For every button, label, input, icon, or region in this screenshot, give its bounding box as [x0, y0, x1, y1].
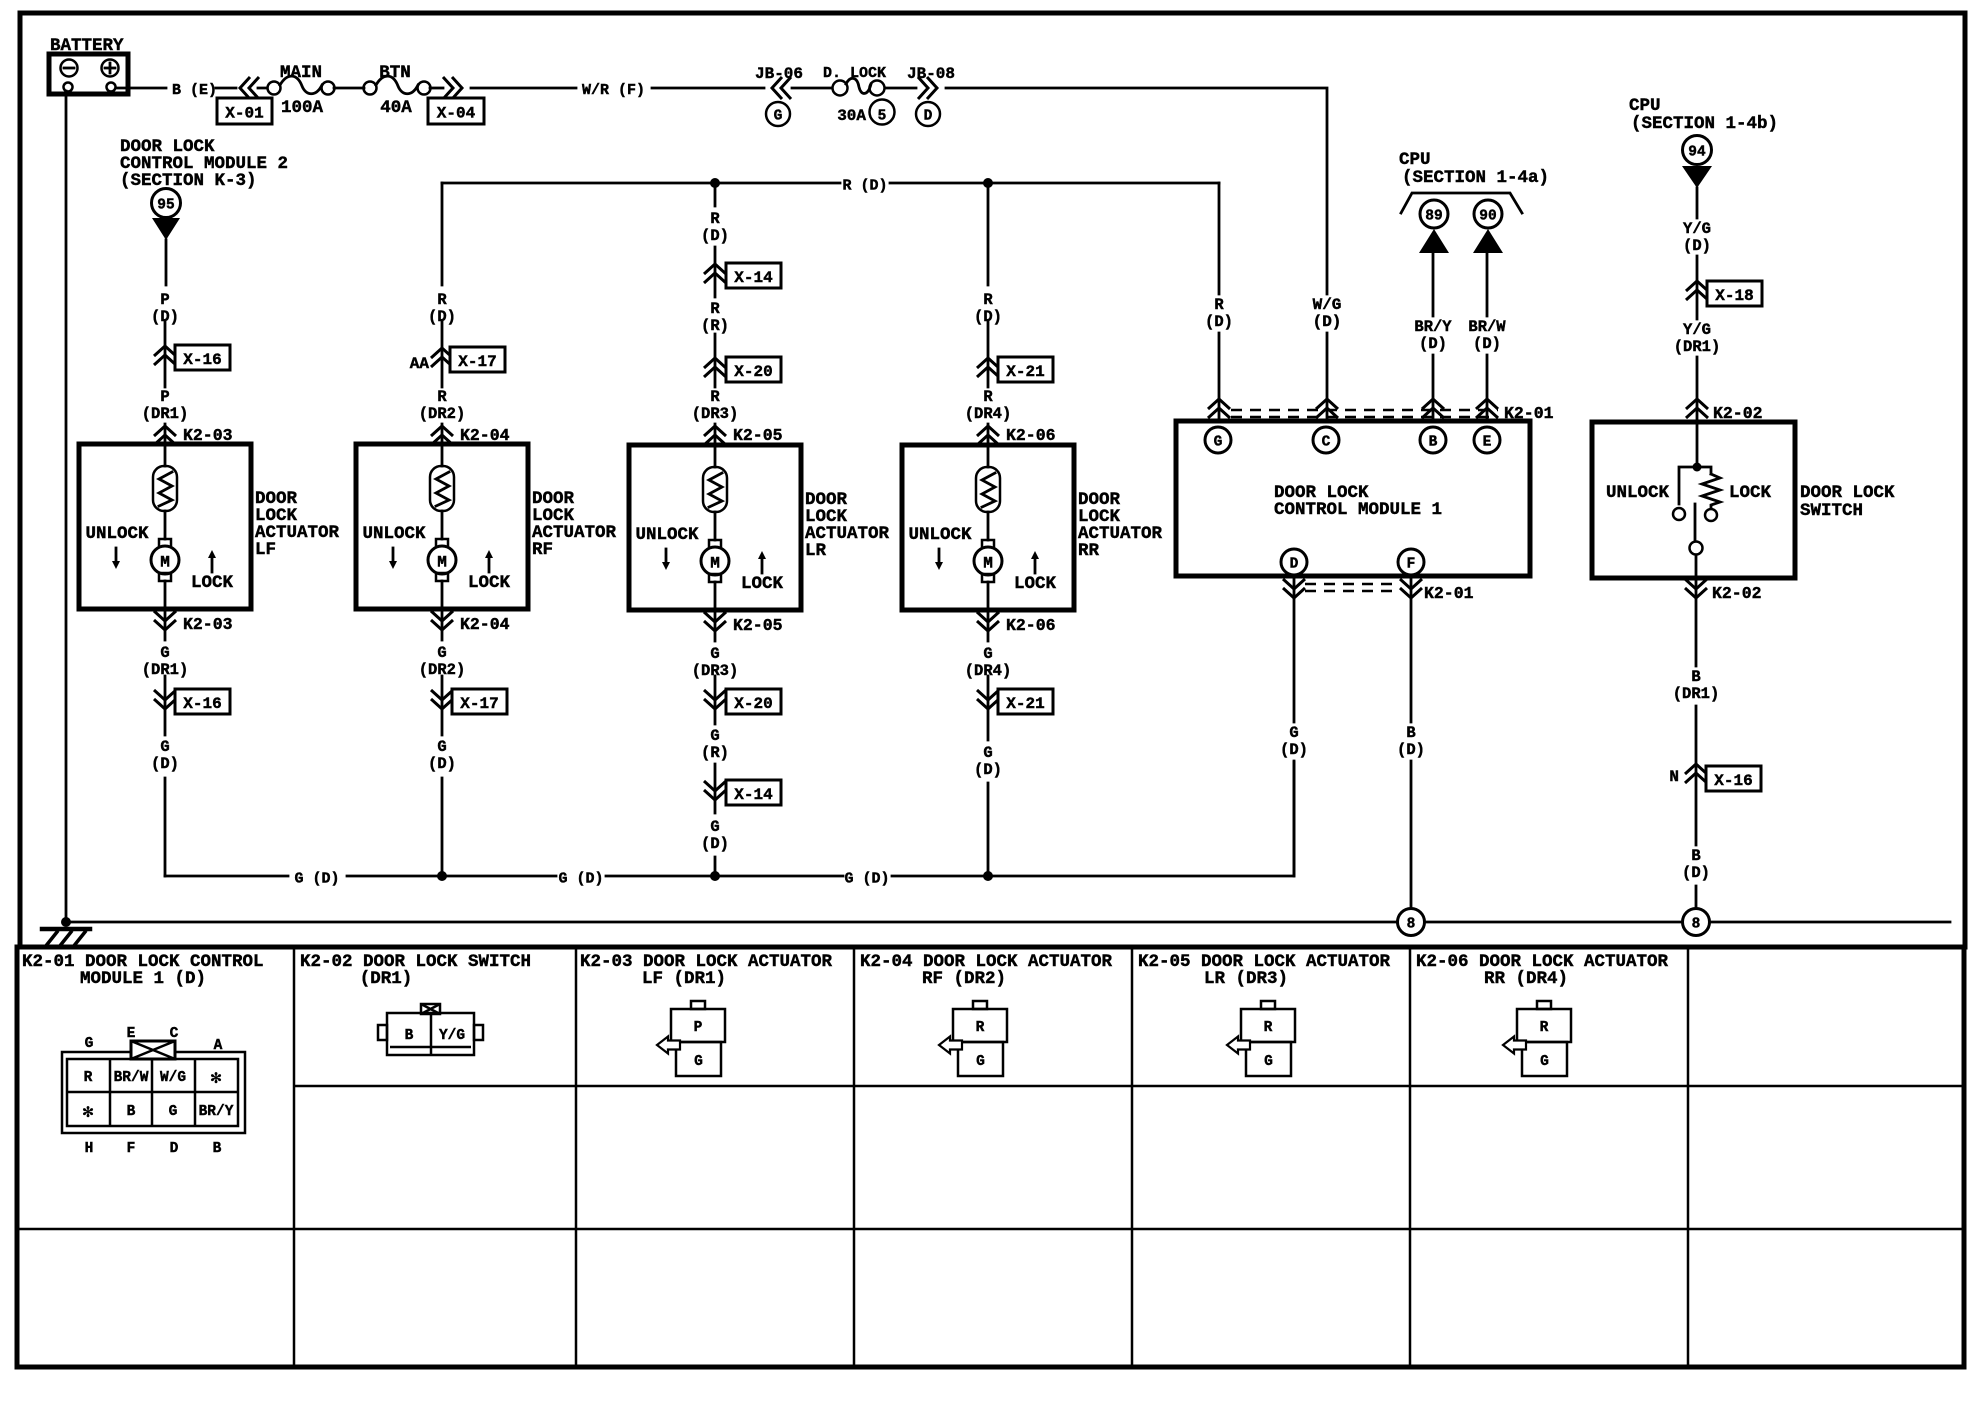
svg-text:K2-06: K2-06 [1006, 616, 1056, 635]
svg-text:Y/G: Y/G [439, 1028, 465, 1044]
svg-text:SWITCH: SWITCH [1800, 501, 1863, 521]
svg-text:X-04: X-04 [437, 105, 476, 123]
node junction G bus RF [437, 871, 447, 881]
wire label G (DR2) [419, 644, 466, 679]
wire label G (D) LF [151, 738, 179, 773]
svg-text:G: G [774, 109, 783, 125]
connector X-21 lower chevron [987, 676, 990, 876]
svg-text:K2-05: K2-05 [733, 426, 783, 445]
connector X-04 chevron [430, 87, 443, 90]
svg-text:R: R [437, 291, 447, 309]
svg-text:D: D [170, 1141, 179, 1157]
connector X-14 lower chevron [704, 781, 726, 800]
svg-text:R: R [437, 388, 447, 406]
connector X-16 chevron [154, 346, 176, 365]
svg-text:89: 89 [1425, 209, 1442, 225]
svg-text:95: 95 [157, 198, 174, 214]
svg-text:R: R [983, 388, 993, 406]
svg-text:(D): (D) [428, 308, 456, 326]
svg-text:P: P [160, 291, 169, 309]
svg-text:G: G [710, 818, 719, 836]
svg-text:(DR1): (DR1) [1673, 685, 1720, 703]
CPU (SECTION 1-4b) [1629, 96, 1778, 188]
svg-text:X-21: X-21 [1006, 695, 1044, 713]
wire label R (DR3) [692, 388, 739, 423]
svg-text:E: E [127, 1026, 136, 1042]
svg-text:(DR3): (DR3) [692, 405, 739, 423]
svg-text:✻: ✻ [211, 1069, 222, 1089]
svg-text:30A: 30A [837, 107, 866, 125]
wire label W/G (D) [1313, 296, 1342, 331]
connector pinout K2-03 [657, 1001, 725, 1076]
svg-text:UNLOCK: UNLOCK [1606, 483, 1670, 503]
battery [49, 36, 128, 94]
svg-text:B: B [1406, 724, 1415, 742]
svg-text:BR/W: BR/W [1468, 318, 1506, 336]
wire R (D) to actuator LR [714, 183, 717, 445]
svg-text:BTN: BTN [379, 63, 411, 83]
connector pinout K2-06 [1503, 1001, 1571, 1076]
svg-text:K2-05: K2-05 [733, 616, 783, 635]
node junction RR [983, 178, 993, 188]
svg-text:RR: RR [1078, 541, 1100, 561]
svg-text:W/R (F): W/R (F) [582, 82, 645, 99]
connector X-14 [726, 263, 781, 288]
connector X-17 [450, 347, 505, 372]
svg-text:DOOR LOCK: DOOR LOCK [1800, 483, 1895, 503]
svg-text:G: G [1540, 1054, 1549, 1070]
svg-text:(DR1): (DR1) [142, 405, 189, 423]
wire label B (DR1) [1673, 668, 1720, 703]
wire label R (D) LR [701, 210, 729, 245]
svg-text:G: G [710, 645, 719, 663]
switch lock contact [1705, 509, 1717, 521]
svg-text:5: 5 [878, 109, 887, 125]
svg-text:BR/Y: BR/Y [199, 1104, 234, 1120]
svg-text:R: R [976, 1020, 985, 1036]
svg-text:G: G [710, 727, 719, 745]
svg-text:R: R [1540, 1020, 1549, 1036]
svg-text:F: F [1407, 557, 1416, 573]
wire ground bus [66, 921, 1950, 924]
svg-text:N: N [1669, 768, 1679, 786]
wire G (D) bus [165, 762, 1294, 876]
pin G [1205, 427, 1231, 453]
pin B [1420, 427, 1446, 453]
svg-text:G: G [85, 1036, 94, 1052]
svg-text:G (D): G (D) [558, 871, 603, 888]
svg-text:RF: RF [532, 540, 553, 560]
wire label R (D) RR [974, 291, 1002, 326]
connector K2-05 chevron bottom [714, 610, 717, 641]
wire label B (D) pin F [1397, 724, 1425, 759]
connector K2-05 chevron top [704, 426, 726, 445]
connector X-17 lower [452, 689, 507, 714]
wire label G (D) LR [701, 818, 729, 853]
svg-text:(D): (D) [1683, 237, 1711, 255]
pin F [1398, 549, 1424, 575]
pin D [1281, 549, 1307, 575]
connector K2-01 dashed boundary top [1231, 410, 1498, 417]
table header K2-05 [1138, 952, 1391, 989]
door lock actuator RR [902, 445, 1163, 610]
svg-text:R: R [710, 388, 720, 406]
svg-text:(SECTION 1-4b): (SECTION 1-4b) [1631, 114, 1778, 134]
wire BR/Y (D) [1432, 253, 1435, 421]
wire label G (D) RF [428, 738, 456, 773]
svg-text:LOCK: LOCK [1729, 483, 1772, 503]
svg-text:G: G [983, 645, 992, 663]
svg-text:CONTROL MODULE 1: CONTROL MODULE 1 [1274, 500, 1442, 520]
svg-text:(D): (D) [151, 755, 179, 773]
connector pinout K2-05 [1227, 1001, 1295, 1076]
svg-text:G: G [437, 738, 446, 756]
svg-text:R: R [710, 210, 720, 228]
svg-text:X-20: X-20 [734, 363, 772, 381]
svg-text:(R): (R) [701, 317, 729, 335]
svg-text:R: R [1264, 1020, 1273, 1036]
svg-text:RF (DR2): RF (DR2) [922, 969, 1006, 989]
connector K2-03 chevron top [154, 426, 176, 445]
CPU (SECTION 1-4a) [1399, 150, 1549, 213]
connector pinout K2-01 [62, 1026, 245, 1157]
svg-text:MODULE 1 (D): MODULE 1 (D) [80, 969, 206, 989]
svg-text:X-20: X-20 [734, 695, 772, 713]
connector pinout K2-02 [378, 1004, 483, 1055]
connector X-20 [726, 357, 781, 382]
svg-text:8: 8 [1407, 917, 1416, 933]
svg-text:(D): (D) [1682, 864, 1710, 882]
connector X-18 chevron [1686, 281, 1708, 300]
connector X-16 right [1706, 766, 1761, 791]
svg-text:R: R [1214, 296, 1224, 314]
wire label P (DR1) [142, 388, 189, 423]
svg-text:(DR1): (DR1) [360, 969, 413, 989]
svg-text:40A: 40A [380, 98, 412, 118]
svg-text:X-21: X-21 [1006, 363, 1044, 381]
wire battery to fuse MAIN [116, 87, 267, 90]
connector X-14 lower [726, 780, 781, 805]
svg-text:G: G [1289, 724, 1298, 742]
svg-text:(D): (D) [1205, 313, 1233, 331]
wire R (D) bus [442, 182, 1219, 185]
wire Y/G (D) [1696, 188, 1699, 421]
svg-text:(D): (D) [1397, 741, 1425, 759]
svg-text:K2-06: K2-06 [1006, 426, 1056, 445]
switch lock resistor [1697, 467, 1720, 507]
svg-text:G: G [983, 744, 992, 762]
connector X-20 chevron [704, 358, 726, 377]
fuse D.LOCK 30A [823, 65, 895, 125]
wire label G (DR3) [692, 645, 739, 680]
svg-text:(D): (D) [428, 755, 456, 773]
svg-text:W/G: W/G [1313, 296, 1342, 314]
svg-text:R: R [710, 300, 720, 318]
wire R (D) to module 1 pin G [1218, 183, 1221, 421]
connector X-01 chevron [240, 77, 259, 99]
svg-text:X-16: X-16 [183, 351, 221, 369]
connector X-17 lower chevron [441, 676, 444, 876]
svg-text:C: C [1322, 435, 1331, 451]
svg-text:X-14: X-14 [734, 786, 773, 804]
ground symbol [42, 929, 90, 947]
door lock actuator LF [79, 444, 340, 609]
connector X-21 [998, 357, 1053, 382]
node junction G bus RR [983, 871, 993, 881]
svg-text:G: G [169, 1104, 178, 1120]
connector X-20 lower [726, 689, 781, 714]
svg-text:W/G: W/G [160, 1070, 186, 1086]
svg-text:X-18: X-18 [1715, 287, 1753, 305]
table header K2-01 [22, 952, 264, 989]
door lock actuator RF [356, 444, 617, 609]
svg-text:K2-01: K2-01 [1424, 584, 1474, 603]
svg-text:D: D [1290, 557, 1299, 573]
wire to fuse D.LOCK [792, 87, 831, 90]
wire W/R (F) [471, 87, 764, 90]
connector X-01 [217, 98, 272, 124]
border frame [20, 13, 1965, 947]
svg-text:BR/W: BR/W [114, 1070, 149, 1086]
svg-text:X-16: X-16 [1714, 772, 1752, 790]
connector table grid [17, 947, 1964, 1367]
svg-text:(DR2): (DR2) [419, 405, 466, 423]
wire label G (R) [701, 727, 729, 762]
wire label R (R) [701, 300, 729, 335]
svg-text:(D): (D) [974, 761, 1002, 779]
terminal 90 [1473, 200, 1503, 253]
wire label G (DR1) [142, 644, 189, 679]
fuse BTN 40A [364, 63, 431, 118]
svg-text:B: B [1429, 435, 1438, 451]
pin E [1474, 427, 1500, 453]
table header K2-02 [300, 952, 531, 989]
connector X-16 lower [175, 689, 230, 714]
svg-text:Y/G: Y/G [1683, 321, 1711, 339]
svg-text:P: P [160, 388, 169, 406]
pin C [1313, 427, 1339, 453]
svg-text:E: E [1483, 435, 1492, 451]
svg-text:X-16: X-16 [183, 695, 221, 713]
ground point 8 right [1683, 909, 1710, 936]
connector K2-04 chevron top [431, 426, 453, 445]
svg-text:K2-02: K2-02 [1712, 584, 1762, 603]
svg-text:G: G [437, 644, 446, 662]
connector K2-01 chevron pin E [1476, 399, 1498, 418]
wire R (D) to actuator RR [987, 183, 990, 445]
svg-text:MAIN: MAIN [280, 63, 322, 83]
svg-text:(D): (D) [151, 308, 179, 326]
svg-text:(D): (D) [701, 227, 729, 245]
svg-text:(D): (D) [1473, 335, 1501, 353]
svg-text:(D): (D) [974, 308, 1002, 326]
connector X-21 lower [998, 689, 1053, 714]
wire label R (DR4) [965, 388, 1012, 423]
wire P (D) from module 2 [165, 240, 166, 444]
svg-text:R (D): R (D) [842, 178, 887, 195]
svg-text:G: G [160, 738, 169, 756]
connector X-18 [1707, 281, 1762, 306]
svg-text:G: G [160, 644, 169, 662]
table header K2-06 [1416, 952, 1669, 989]
connector K2-04 chevron bottom [441, 609, 444, 640]
svg-text:G (D): G (D) [844, 871, 889, 888]
wire BR/W (D) [1486, 253, 1489, 421]
connector K2-06 chevron bottom [987, 610, 990, 641]
connector K2-03 chevron bottom [164, 609, 167, 640]
svg-text:100A: 100A [281, 98, 324, 118]
svg-text:LR (DR3): LR (DR3) [1204, 969, 1288, 989]
svg-text:Y/G: Y/G [1683, 220, 1711, 238]
svg-text:(D): (D) [701, 835, 729, 853]
connector X-20 lower chevron [714, 676, 717, 876]
svg-text:(D): (D) [1313, 313, 1342, 331]
switch common contact [1690, 542, 1703, 555]
svg-text:8: 8 [1692, 917, 1701, 933]
wire label G (D) pin D [1280, 724, 1308, 759]
svg-text:B (E): B (E) [172, 82, 217, 99]
svg-text:(SECTION 1-4a): (SECTION 1-4a) [1402, 168, 1549, 188]
wire label B (D) switch [1682, 847, 1710, 882]
svg-text:LF: LF [255, 540, 276, 560]
door lock switch [1592, 422, 1795, 578]
door lock actuator LR [629, 445, 890, 610]
svg-text:G: G [694, 1054, 703, 1070]
ground point 8 left [1398, 909, 1425, 936]
wire label R (D) module [1205, 296, 1233, 331]
connector X-16 lower chevron [164, 676, 167, 876]
door lock switch label [1800, 483, 1895, 521]
svg-text:BR/Y: BR/Y [1414, 318, 1452, 336]
switch wiper arm [1694, 504, 1697, 541]
wire W/G to module 1 pin C [946, 88, 1327, 421]
svg-text:K2-03: K2-03 [183, 615, 233, 634]
connector K2-01 dashed boundary bottom [1305, 584, 1400, 591]
svg-text:C: C [170, 1026, 179, 1042]
door lock control module 1 [1176, 421, 1530, 576]
connector X-14 chevron [704, 264, 726, 283]
svg-text:R: R [84, 1070, 93, 1086]
svg-text:G (D): G (D) [294, 871, 339, 888]
svg-text:K2-02 DOOR LOCK SWITCH: K2-02 DOOR LOCK SWITCH [300, 952, 531, 972]
svg-text:X-17: X-17 [458, 353, 496, 371]
connector X-16 [175, 345, 230, 370]
switch unlock contact [1679, 467, 1697, 504]
svg-text:F: F [127, 1141, 136, 1157]
wire label G (D) RR [974, 744, 1002, 779]
svg-text:B: B [213, 1141, 222, 1157]
svg-text:G: G [976, 1054, 985, 1070]
connector pinout K2-04 [939, 1001, 1007, 1076]
svg-text:R: R [983, 291, 993, 309]
connector K2-01 chevron pin B [1422, 399, 1444, 418]
wire battery to ground bus [65, 91, 68, 922]
connector K2-01 chevron pin G [1208, 399, 1230, 418]
svg-text:B: B [1691, 847, 1700, 865]
splice AA connector X-17 chevron [410, 348, 453, 373]
svg-text:G: G [1214, 435, 1223, 451]
node battery ground junction [61, 917, 71, 927]
connector K2-06 chevron top [977, 426, 999, 445]
connector K2-02 chevron bottom [1695, 578, 1698, 909]
fuse MAIN 100A [268, 63, 335, 118]
svg-text:LR: LR [805, 541, 827, 561]
svg-text:CPU: CPU [1629, 96, 1661, 116]
svg-text:(SECTION K-3): (SECTION K-3) [120, 171, 257, 191]
svg-text:94: 94 [1688, 145, 1706, 161]
wire R (D) to actuator RF [441, 183, 444, 444]
connector K2-02 chevron top [1686, 399, 1708, 418]
svg-text:(DR1): (DR1) [1674, 338, 1721, 356]
svg-text:(R): (R) [701, 744, 729, 762]
terminal 89 [1419, 200, 1449, 253]
svg-text:A: A [214, 1038, 223, 1054]
svg-text:B: B [127, 1104, 136, 1120]
svg-text:RR (DR4): RR (DR4) [1484, 969, 1568, 989]
svg-text:CPU: CPU [1399, 150, 1431, 170]
svg-text:LF (DR1): LF (DR1) [642, 969, 726, 989]
wire between fuses [334, 87, 364, 90]
connector K2-01 chevron pin D [1293, 576, 1296, 876]
node junction G bus LR [710, 871, 720, 881]
connector X-04 [428, 98, 484, 124]
svg-text:X-17: X-17 [460, 695, 498, 713]
svg-text:H: H [85, 1141, 94, 1157]
svg-text:✻: ✻ [83, 1103, 94, 1123]
svg-text:D: D [924, 109, 933, 125]
table header K2-04 [860, 952, 1113, 989]
svg-text:B: B [1691, 668, 1700, 686]
svg-text:(D): (D) [1280, 741, 1308, 759]
svg-text:X-14: X-14 [734, 269, 773, 287]
wire label R (D) RF [428, 291, 456, 326]
svg-text:K2-04: K2-04 [460, 615, 510, 634]
junction JB-06 [755, 65, 803, 126]
switch common feed [1696, 422, 1699, 467]
svg-text:P: P [694, 1020, 703, 1036]
wire label Y/G (DR1) [1674, 321, 1721, 356]
wire label P (D) [151, 291, 179, 326]
svg-text:(DR4): (DR4) [965, 405, 1012, 423]
svg-text:B: B [405, 1028, 414, 1044]
junction JB-08 [885, 65, 955, 126]
connector K2-01 chevron pin C [1316, 399, 1338, 418]
svg-text:X-01: X-01 [225, 105, 263, 123]
wire label R (DR2) [419, 388, 466, 423]
svg-text:90: 90 [1479, 209, 1496, 225]
svg-text:AA: AA [410, 355, 430, 373]
connector X-21 chevron [977, 358, 999, 377]
door lock control module 2 (section K-3) [120, 137, 288, 240]
node junction LR [710, 178, 720, 188]
svg-text:(D): (D) [1419, 335, 1447, 353]
connector K2-01 chevron pin F [1410, 576, 1413, 909]
table header K2-03 [580, 952, 833, 989]
svg-text:G: G [1264, 1054, 1273, 1070]
wire label G (DR4) [965, 645, 1012, 680]
splice N connector X-16 right chevron [1669, 764, 1707, 786]
